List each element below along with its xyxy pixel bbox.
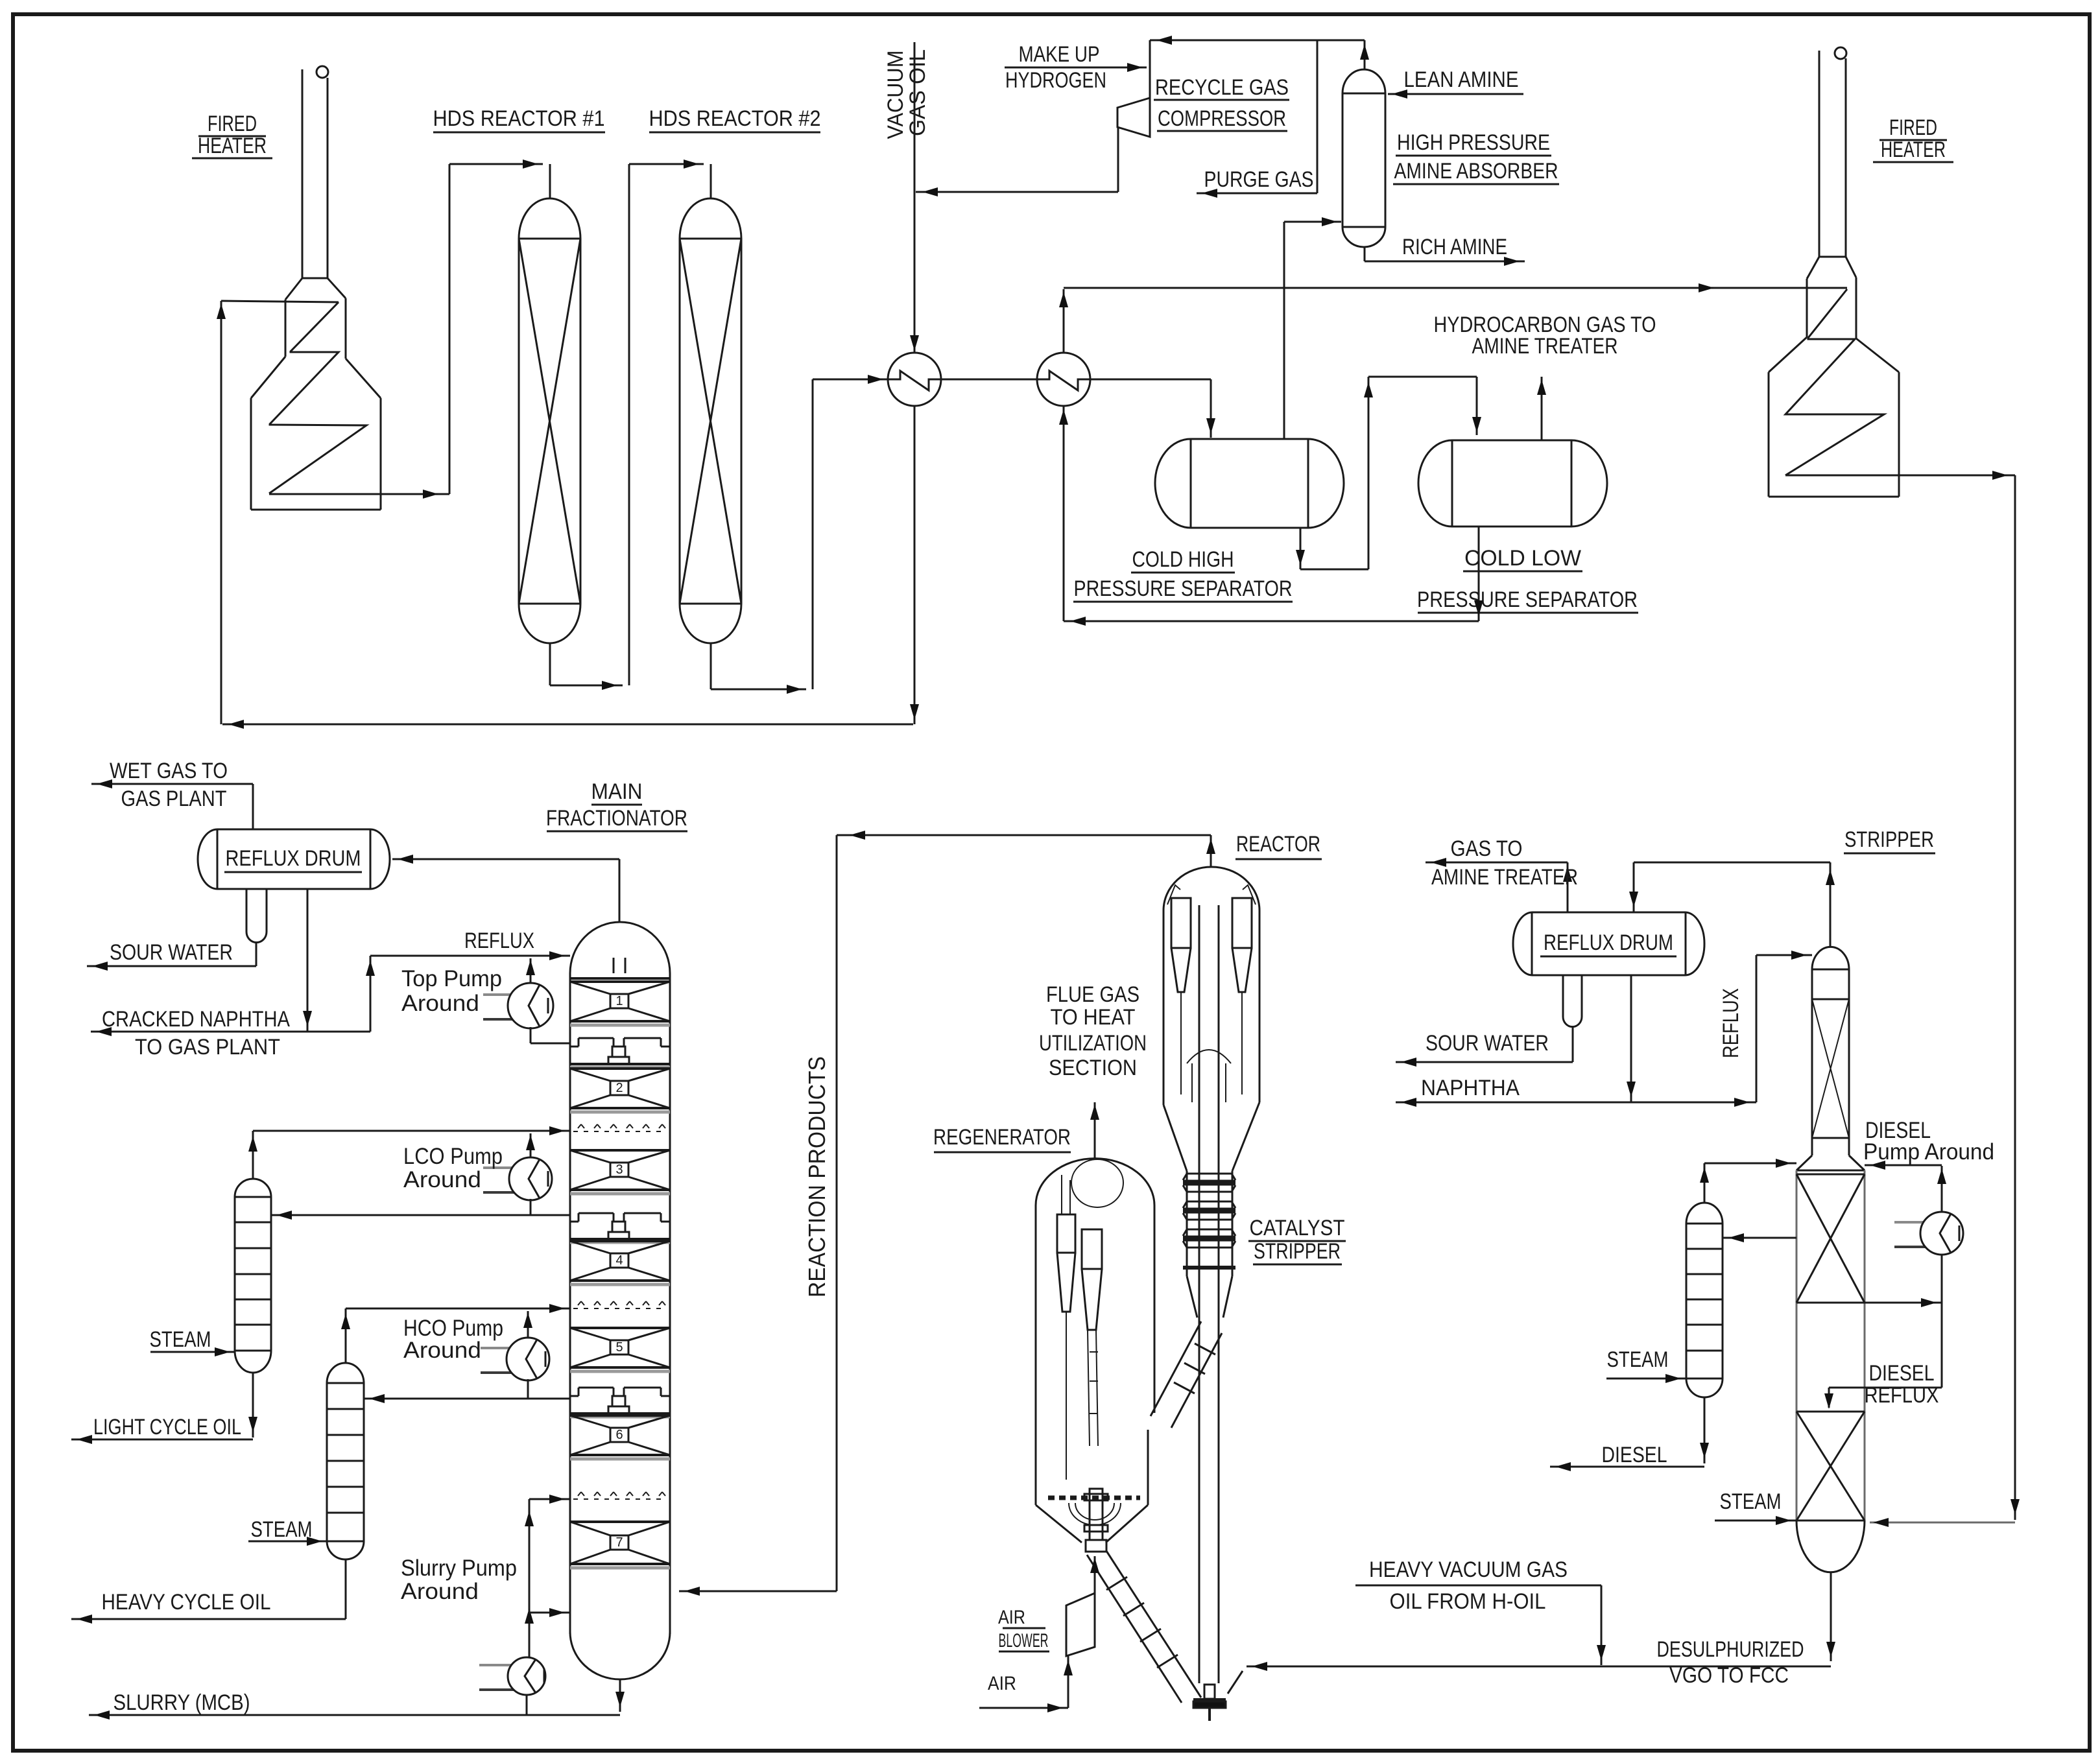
stripper bottom dome [1796,1520,1865,1572]
svg-text:FLUE GAS: FLUE GAS [1046,982,1139,1007]
wire: rich amine outlet [1364,247,1366,261]
wire: HCO stripper steam inlet [248,1541,327,1543]
svg-text:SECTION: SECTION [1049,1056,1137,1080]
svg-text:FIRED: FIRED [1889,115,1937,140]
svg-text:7: 7 [615,1535,623,1550]
svg-text:SLURRY (MCB): SLURRY (MCB) [113,1690,250,1715]
LCO side stripper trays [235,1196,271,1198]
svg-text:TO HEAT: TO HEAT [1051,1005,1136,1030]
wire: flue gas outlet [1094,1102,1096,1159]
svg-text:HEAVY VACUUM GAS: HEAVY VACUUM GAS [1369,1557,1568,1582]
fired heater 2 upper box [1806,279,1808,337]
wire: stripper reflux drum feed [1633,862,1635,912]
fired heater 1 shoulders [251,357,285,398]
svg-text:STEAM: STEAM [1607,1347,1669,1372]
svg-text:HEATER: HEATER [1881,137,1946,162]
wire: stripper bottoms outlet [1830,1572,1832,1661]
wire: naphtha product line [1396,1102,1756,1104]
svg-text:STRIPPER: STRIPPER [1844,827,1934,852]
svg-text:SOUR WATER: SOUR WATER [1426,1031,1549,1056]
svg-text:Slurry Pump: Slurry Pump [401,1556,517,1581]
wire: HX2 top line to fired heater 2 [1063,289,1065,353]
wire: stripper reflux riser [1756,955,1758,1102]
wire: vacuum gas oil feed line [914,42,916,353]
wire: light cycle oil product line [252,1373,254,1438]
reflux drum boot [246,889,248,932]
wire: cracked naphtha line [91,1031,370,1033]
spent catalyst standpipe (reactor to regenerator) [1151,1321,1201,1416]
fired heater 2 coil zigzag [1785,289,1884,475]
wire: HCO draw header to side stripper [364,1398,570,1400]
svg-text:BLOWER: BLOWER [999,1630,1049,1651]
fired heater 2 radiant box [1768,372,1770,497]
svg-text:HDS REACTOR #1: HDS REACTOR #1 [433,106,605,131]
wire: stripper steam inlet [1715,1520,1796,1522]
FCC reactor catalyst stripper bellows [1187,1173,1232,1175]
HDS reactor 2 vessel [679,239,681,604]
regenerator inner dome arc [1071,1183,1123,1207]
stripper upper narrow section [1812,947,1849,969]
svg-text:RECYCLE GAS: RECYCLE GAS [1155,75,1289,100]
wire: absorber overhead to compressor suction [1364,40,1366,69]
wire: recycle gas suction line [1150,40,1365,41]
wire: stripper sour water line [1396,1061,1573,1063]
fractionator X-tray 4 [570,1240,670,1242]
fired heater 1 coil zigzag [269,302,366,493]
stripper drum boot [1562,975,1564,1017]
svg-text:DIESEL: DIESEL [1602,1443,1667,1467]
wire: heater1 feed riser [221,301,222,724]
FCC reactor cyclone left [1171,898,1191,948]
wire: heavy vacuum gas oil feed line [1355,1585,1601,1587]
wire: purge gas stub [1317,40,1318,193]
wire: top PA draw from chimney 1 [530,1027,532,1043]
wire: stripper drum gas line [1567,862,1569,912]
wire: make-up hydrogen line [1005,67,1147,69]
LCO pump around cooler [483,1166,538,1169]
fired heater 1 stack [302,69,304,278]
HDS reactor 2 internal cross [680,239,741,604]
svg-text:AIR: AIR [988,1673,1016,1694]
fired heater 2 shoulders [1769,337,1807,372]
svg-text:REFLUX DRUM: REFLUX DRUM [1544,930,1673,955]
svg-text:GAS OIL: GAS OIL [905,49,930,136]
wire: heater1 feed line [221,301,339,302]
wire: slurry (MCB) product line [89,1714,620,1716]
svg-text:HEAVY CYCLE OIL: HEAVY CYCLE OIL [102,1590,271,1615]
wire: heater1 outlet to HDS reactor 1 [269,493,449,495]
svg-text:PURGE GAS: PURGE GAS [1204,167,1314,192]
svg-text:STEAM: STEAM [150,1327,211,1352]
svg-text:REFLUX: REFLUX [1865,1383,1939,1408]
recycle gas compressor symbol [1117,98,1150,137]
wire: heater2 outlet line going right and down [1785,475,2015,477]
svg-text:RICH AMINE: RICH AMINE [1402,235,1507,259]
svg-text:VACUUM: VACUUM [883,51,908,139]
svg-text:CATALYST: CATALYST [1250,1216,1345,1240]
stripper lower X packing [1796,1411,1865,1413]
svg-text:COMPRESSOR: COMPRESSOR [1158,106,1286,131]
wire: HDS2 bottom outlet to HX1 [710,643,712,689]
wire: reaction products feed into fractionator [679,1591,837,1592]
wire: return line into stripper bottom [1870,1522,2015,1524]
fractionator X-tray 5 [570,1327,670,1329]
fractionator chimney tray 3 [579,1387,614,1389]
svg-text:MAKE UP: MAKE UP [1019,42,1100,67]
main fractionator shell [569,973,571,1634]
FCC reactor cyclone right [1232,898,1252,948]
wire: reflux riser and header [370,956,372,1032]
svg-text:HDS REACTOR #2: HDS REACTOR #2 [649,106,821,131]
wire: wet gas line [252,784,254,829]
diesel side stripper shell [1686,1224,1688,1378]
svg-text:PRESSURE SEPARATOR: PRESSURE SEPARATOR [1074,576,1293,601]
svg-text:HYDROGEN: HYDROGEN [1005,68,1106,93]
wire: top PA return to reflux header [530,958,532,984]
wire: diesel side stripper feed draw [1723,1237,1796,1239]
svg-text:GAS PLANT: GAS PLANT [121,787,227,811]
svg-text:GAS TO: GAS TO [1451,836,1523,861]
wire: slurry PA return upper [529,1498,570,1500]
fired heater 1 upper box [285,300,287,357]
wire: LCO return header into fractionator [253,1130,570,1132]
stripper upper packing cross [1812,999,1849,1138]
wire: compressor discharge to feed line [1117,127,1119,192]
fractionator X-tray 6 [570,1414,670,1417]
svg-text:SOUR WATER: SOUR WATER [110,940,233,965]
regenerated catalyst standpipe (regenerator to riser) [1087,1555,1182,1703]
stripper wide section shell [1796,1170,1798,1520]
HDS reactor 1 internal cross [519,239,580,604]
fractionator spray distributor 2 [573,1308,667,1309]
svg-text:2: 2 [615,1081,623,1095]
svg-text:Pump Around: Pump Around [1863,1139,1994,1165]
fractionator spray distributor 3 [573,1498,667,1500]
main fractionator top vapor pipe detail [613,958,615,973]
svg-text:NAPHTHA: NAPHTHA [1421,1076,1520,1100]
svg-text:UTILIZATION: UTILIZATION [1039,1031,1147,1056]
high pressure amine absorber vessel [1342,93,1344,227]
wire: stripper overhead line [1830,862,1832,947]
regenerator shell [1036,1159,1154,1205]
wire: LCO stripper overhead riser [252,1131,254,1179]
fractionator chimney tray 1 [579,1037,614,1039]
svg-text:Around: Around [401,991,479,1016]
svg-text:AMINE ABSORBER: AMINE ABSORBER [1394,159,1558,183]
top pump around cooler [483,993,538,996]
svg-text:REGENERATOR: REGENERATOR [933,1125,1071,1150]
cold low pressure separator vessel [1451,440,1453,527]
svg-text:REFLUX: REFLUX [1719,988,1743,1058]
svg-text:STEAM: STEAM [251,1517,313,1542]
svg-text:Top Pump: Top Pump [401,966,502,991]
HCO pump around cooler [481,1347,535,1349]
regenerator cyclone left [1057,1214,1075,1253]
wire: HCO stripper overhead riser [345,1308,347,1363]
fractionator chimney tray 2 [579,1213,614,1214]
svg-text:LEAN AMINE: LEAN AMINE [1404,67,1519,92]
stripper reflux drum [1532,912,1686,914]
svg-text:HIGH PRESSURE: HIGH PRESSURE [1397,130,1550,155]
svg-text:5: 5 [615,1340,623,1355]
svg-text:VGO TO FCC: VGO TO FCC [1669,1663,1789,1688]
wire: HCO PA return [527,1311,529,1340]
svg-text:AMINE TREATER: AMINE TREATER [1472,334,1618,359]
svg-text:TO GAS PLANT: TO GAS PLANT [135,1035,280,1059]
fired heater 1 radiant box [250,398,252,510]
air blower symbol [1066,1593,1095,1656]
svg-text:PRESSURE SEPARATOR: PRESSURE SEPARATOR [1417,587,1638,612]
diesel pump around cooler [1894,1221,1949,1224]
wire: LCO draw header to side stripper [271,1214,570,1216]
stripper upper X packing [1796,1174,1865,1176]
wire: slurry PA return lower [529,1612,570,1614]
svg-text:4: 4 [615,1253,623,1268]
wire: air blower discharge [1094,1556,1096,1593]
svg-text:FRACTIONATOR: FRACTIONATOR [546,806,687,831]
main fractionator top line [570,977,670,980]
wire: fractionator bottoms outlet [619,1679,621,1712]
wire: diesel PA draw line [1865,1302,1942,1304]
wire: effluent line through exchangers [889,379,1211,381]
wire: diesel side stripper steam inlet [1606,1378,1686,1380]
svg-text:3: 3 [615,1163,623,1177]
FCC reactor bottom neck and wye [1204,1685,1215,1699]
svg-text:REACTOR: REACTOR [1236,832,1320,857]
wire: sour water line [87,965,256,967]
heat exchanger HX1 (feed/effluent) [888,353,941,406]
fractionator X-tray 3 [570,1149,670,1152]
wire: diesel product line [1704,1397,1706,1463]
svg-text:6: 6 [615,1428,623,1442]
HDS reactor 1 vessel [518,239,520,604]
wire: HX1 bottom line to long return [914,405,916,724]
wire: CLPS liquid to HX2 [1478,527,1480,621]
wire: fractionator overhead to reflux drum [619,859,621,922]
HCO side stripper trays [327,1382,364,1384]
svg-text:COLD HIGH: COLD HIGH [1132,547,1234,572]
wire: diesel PA riser [1941,1166,1943,1212]
FCC reactor internal arcs [1187,1050,1231,1063]
slurry pump around cooler [479,1664,534,1666]
wire: LCO PA return [530,1133,532,1159]
wire: slurry cooler suction from bottoms line [526,1695,528,1715]
svg-text:FIRED: FIRED [208,112,257,136]
wire: LCO stripper steam inlet [150,1351,235,1353]
wire: HX2 bottom line from cold LP separator [1063,405,1065,621]
cold high pressure separator vessel [1190,439,1192,528]
wire: riser feed entry slant [1228,1671,1243,1694]
svg-text:REFLUX: REFLUX [464,929,534,953]
regenerator bottom nozzle [1090,1489,1103,1540]
svg-text:REACTION PRODUCTS: REACTION PRODUCTS [804,1056,830,1297]
svg-text:STEAM: STEAM [1720,1489,1782,1514]
regenerator air distributor [1048,1496,1140,1500]
svg-text:Around: Around [403,1338,481,1363]
wire: CHPS liquid to cold LP separator [1300,528,1302,569]
reflux drum (main fractionator) [217,829,370,831]
fractionator spray distributor 1 [573,1131,667,1132]
wire: diesel reflux line [1829,1387,1942,1389]
fired heater 1 collar [285,278,302,300]
diesel side stripper trays [1686,1223,1723,1225]
svg-text:HEATER: HEATER [198,134,267,158]
HCO side stripper shell [326,1383,328,1541]
svg-text:STRIPPER: STRIPPER [1254,1239,1341,1264]
svg-text:WET GAS TO: WET GAS TO [110,759,228,783]
wire: side stripper overhead return [1704,1163,1706,1203]
wire: reaction products downcomer [836,835,838,1591]
stripper transition shoulders [1796,1155,1812,1170]
svg-text:Around: Around [403,1167,481,1192]
svg-text:COLD LOW: COLD LOW [1464,546,1581,571]
FCC reactor shell [1163,867,1259,910]
wire: desulphurized VGO line to riser [1247,1666,1831,1668]
svg-text:1: 1 [615,994,623,1008]
wire: reactor overhead line [837,834,1211,836]
wire: air suction line [1068,1656,1069,1708]
wire: HCO PA draw [527,1379,529,1399]
wire: heavy cycle oil product line [345,1559,347,1619]
svg-text:DESULPHURIZED: DESULPHURIZED [1657,1637,1804,1662]
svg-text:OIL FROM H-OIL: OIL FROM H-OIL [1390,1589,1546,1614]
svg-text:LIGHT CYCLE OIL: LIGHT CYCLE OIL [93,1415,241,1439]
svg-text:MAIN: MAIN [591,779,643,804]
regenerator cyclone right [1082,1229,1102,1269]
fractionator X-tray 2 [570,1067,670,1070]
svg-text:LCO Pump: LCO Pump [403,1144,503,1169]
svg-text:AMINE TREATER: AMINE TREATER [1431,865,1578,890]
wire: diesel PA return header [1865,1165,1942,1166]
wire: stripper drum reflux downcomer [1630,975,1632,1102]
fired heater 2 collar [1807,257,1819,279]
wire: HDS1 bottom outlet to HDS2 [549,643,551,685]
svg-text:AIR: AIR [998,1607,1025,1628]
fractionator X-tray 7 [570,1520,670,1523]
wire: HCO return header into fractionator [346,1308,570,1310]
svg-text:REFLUX DRUM: REFLUX DRUM [226,846,361,871]
wire: lean amine inlet [1388,93,1523,95]
wire: slurry PA riser [529,1499,531,1657]
fired heater 2 stack [1819,51,1820,257]
fractionator X-tray 1 [570,980,670,983]
svg-text:DIESEL: DIESEL [1869,1361,1935,1386]
LCO side stripper shell [234,1197,236,1351]
wire: CHPS gas to absorber [1283,222,1285,439]
heat exchanger HX2 [1037,353,1090,406]
wire: drum liquid downcomer [307,889,309,1032]
svg-text:CRACKED NAPHTHA: CRACKED NAPHTHA [102,1007,290,1032]
wire: long return line from HX1 to heater1 feed [222,724,913,726]
FCC reactor riser pipe [1199,905,1200,1683]
wire: effluent into cold HP separator [1210,379,1212,438]
wire: CLPS gas to amine treater [1541,377,1543,440]
svg-text:Around: Around [401,1579,479,1604]
wire: LCO PA draw [530,1199,532,1215]
